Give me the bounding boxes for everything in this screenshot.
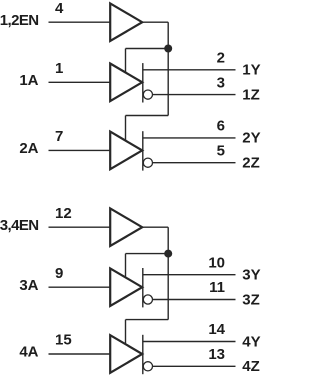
buffer U3 [110,132,142,170]
wire enable vertical drop U1 [167,22,169,48]
svg-text:15: 15 [55,332,72,349]
svg-text:5: 5 [217,142,225,159]
svg-text:3,4EN: 3,4EN [0,217,39,234]
inverter bubble U2 [143,90,152,99]
enable buffer U1 [110,3,142,41]
wire enable bus down to U3 [167,49,169,116]
svg-text:1Z: 1Z [242,86,260,103]
wire 4Y output [143,341,236,343]
svg-text:3Z: 3Z [242,291,260,308]
wire U4 output [141,226,168,228]
inverter bubble U3 [143,158,152,167]
wire enable vertical drop U4 [167,227,169,253]
buffer U5 [110,268,142,306]
svg-text:3A: 3A [19,277,38,294]
wire 1A input [49,81,111,83]
wire enable drop into U5 [125,254,127,278]
junction dot node 3,4EN [164,250,172,258]
wire 3Y output [143,274,236,276]
wire enable drop into U6 [125,320,127,345]
svg-text:2: 2 [217,50,225,67]
svg-text:6: 6 [217,118,225,135]
wire 1Y output [143,69,236,71]
svg-text:1A: 1A [19,72,38,89]
wire 3Z output [153,299,236,301]
svg-text:1: 1 [55,60,63,77]
svg-text:3Y: 3Y [242,267,260,284]
buffer U6 [110,335,142,373]
wire enable branch to U5 [126,253,169,255]
wire enable branch to U2 [126,48,169,50]
svg-text:4Z: 4Z [242,358,260,375]
output post U6 [142,335,144,374]
svg-text:2A: 2A [19,140,38,157]
svg-text:11: 11 [209,279,225,296]
svg-text:10: 10 [208,254,225,271]
buffer U2 [110,64,142,102]
wire 1Z output [153,94,236,96]
svg-text:4A: 4A [19,344,38,361]
wire 2A input [49,149,111,151]
svg-text:7: 7 [55,128,63,145]
wire enable branch to U6 [126,319,169,321]
output post U5 [142,268,144,307]
wire 3A input [49,286,111,288]
wire enable branch to U3 [126,115,169,117]
output post U3 [142,131,144,170]
wire 2Y output [143,137,236,139]
svg-text:9: 9 [55,265,63,282]
wire enable drop into U3 [125,116,127,141]
svg-text:14: 14 [208,321,225,338]
wire 4Z output [153,365,236,367]
inverter bubble U5 [143,295,152,304]
svg-text:2Y: 2Y [242,130,260,147]
svg-text:4Y: 4Y [242,333,260,350]
svg-text:1,2EN: 1,2EN [0,12,39,29]
svg-text:4: 4 [55,0,64,17]
wire enable drop into U2 [125,49,127,73]
wire 2Z output [153,162,236,164]
svg-text:2Z: 2Z [242,155,260,172]
wire 1,2EN input [49,21,111,23]
svg-text:13: 13 [208,346,225,363]
junction dot node 1,2EN [164,45,172,53]
wire 4A input [49,353,111,355]
wire enable bus down to U6 [167,254,169,320]
enable buffer U4 [110,208,142,246]
svg-text:1Y: 1Y [242,62,260,79]
wire 3,4EN input [49,226,111,228]
svg-text:12: 12 [55,205,72,222]
inverter bubble U6 [143,362,152,371]
output post U2 [142,63,144,102]
wire U1 output [141,21,168,23]
svg-text:3: 3 [217,74,225,91]
